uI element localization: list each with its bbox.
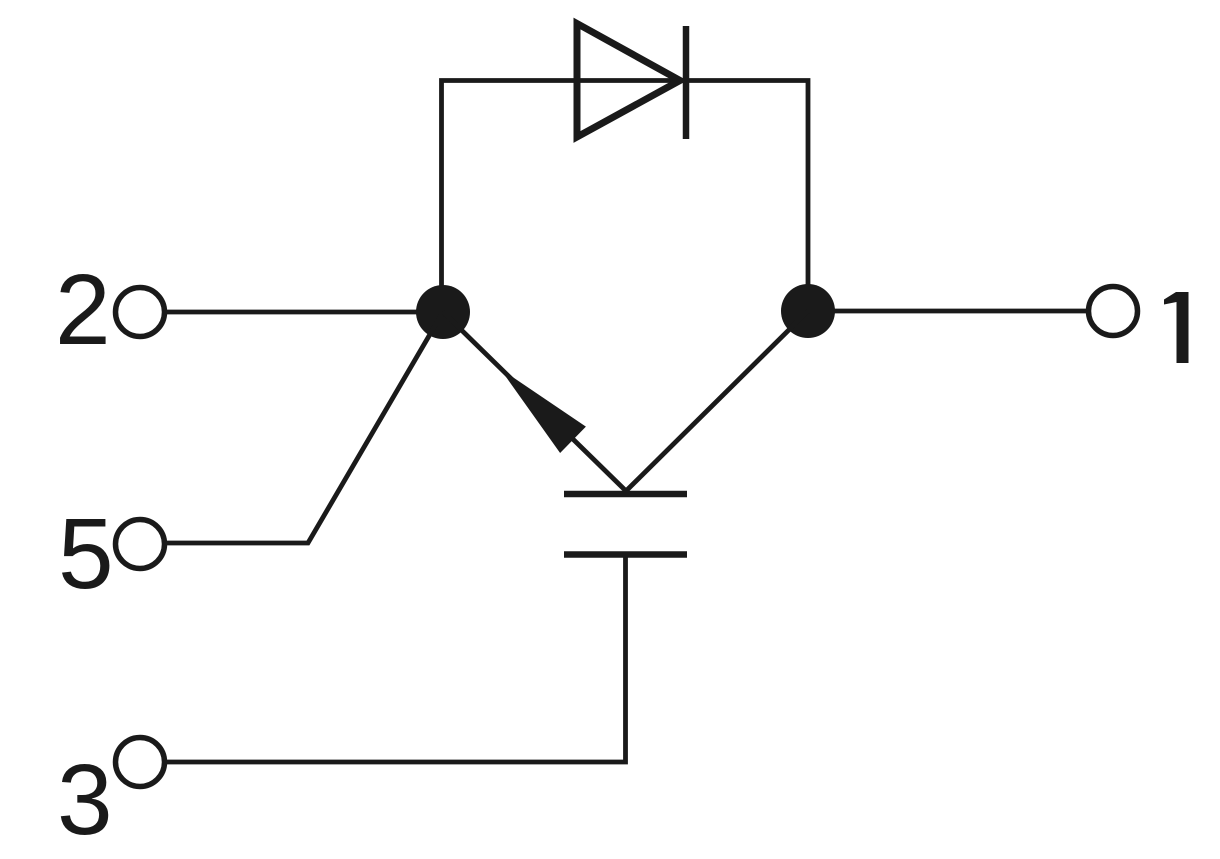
- IGBT Q1 emitter diagonal (node C to channel bar): [443, 312, 626, 491]
- wire terminal 5 to node C (bend): [166, 312, 443, 543]
- diode D1 triangle (anode): [577, 24, 680, 138]
- terminal 2 circle: [116, 288, 165, 337]
- wire diode branch (node C up, across top, down to node E): [442, 81, 809, 313]
- IGBT Q1 gate bar: [564, 551, 687, 558]
- node C junction dot (left): [416, 285, 470, 339]
- label pin 1: [1164, 292, 1189, 363]
- IGBT Q1 channel bar: [564, 491, 687, 498]
- diode D1 cathode bar: [683, 26, 690, 139]
- terminal 3 circle: [116, 738, 165, 787]
- wire node E to terminal 1: [808, 309, 1088, 314]
- wire terminal 2 to node C: [167, 310, 443, 315]
- terminal 1 circle: [1089, 287, 1138, 336]
- svg-text:2: 2: [55, 254, 111, 366]
- wire gate lead from terminal 3 (bend): [166, 554, 626, 762]
- IGBT Q1 collector diagonal (node E to channel bar): [626, 311, 808, 491]
- node E junction dot (right): [781, 284, 835, 338]
- svg-text:3: 3: [57, 744, 113, 856]
- svg-text:5: 5: [58, 498, 114, 610]
- IGBT Q1 emitter arrow: [500, 369, 586, 454]
- terminal 5 circle: [116, 520, 165, 569]
